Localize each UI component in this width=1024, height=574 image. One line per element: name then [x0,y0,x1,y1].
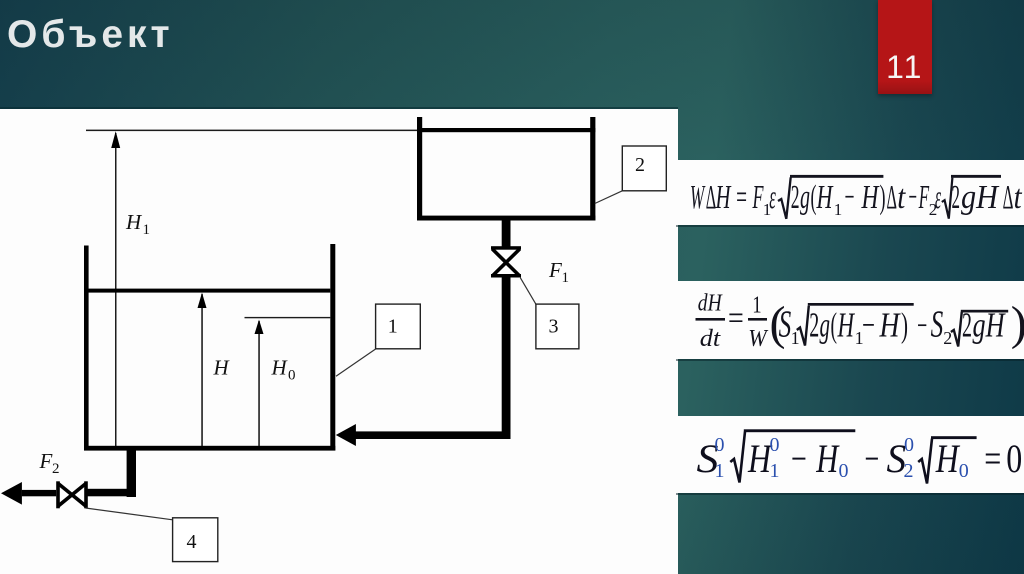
svg-text:=: = [736,179,747,216]
svg-text:H: H [837,306,855,345]
bottom horizontal pipe [87,489,136,497]
tank T1 water level line [89,289,331,293]
H arrowhead [198,293,207,308]
pipe tank2 to valve1 [502,220,511,247]
tank T2 right wall [590,117,595,221]
svg-text:H: H [815,436,839,481]
svg-text:S: S [779,304,792,346]
H0 arrowhead [255,320,264,334]
svg-text:H: H [715,179,732,216]
svg-text:H: H [125,210,143,234]
FORMULA 2 [696,291,1024,353]
svg-text:1: 1 [752,293,761,319]
svg-text:g: g [820,306,831,345]
valve V2 right bar [84,481,88,508]
svg-text:0: 0 [839,460,849,482]
svg-text:2: 2 [791,179,800,216]
svg-text:t: t [897,179,906,216]
H1 arrowhead [111,131,120,148]
svg-text:F: F [39,449,53,473]
leader line to box 1 [336,349,376,376]
white diagram panel [0,109,678,574]
FORMULA 1 [690,175,1023,219]
svg-text:S: S [931,304,944,346]
formula strip 1 [676,160,1024,225]
svg-text:dH: dH [698,291,723,317]
svg-text:=: = [984,436,1001,481]
pipe valve1 down [502,278,511,440]
H0 arrow shaft [258,321,260,446]
svg-text:−: − [865,436,880,481]
svg-text:−: − [917,308,927,345]
svg-text:1: 1 [562,270,570,286]
svg-text:gH: gH [961,179,1000,216]
svg-text:3: 3 [549,315,559,337]
outflow arrow shaft [22,490,56,496]
svg-text:dt: dt [700,326,722,352]
svg-text:1: 1 [834,200,843,219]
svg-text:1: 1 [388,315,398,337]
formula strip 2 [676,281,1024,359]
outflow arrowhead [1,482,22,505]
leader line to box 2 [595,191,623,204]
svg-text:2: 2 [904,460,914,482]
svg-text:2: 2 [809,306,819,345]
tank T2 left wall [417,117,422,221]
svg-text:H: H [861,179,880,216]
outlet pipe from T1 bottom [127,450,136,497]
svg-text:2: 2 [952,179,961,216]
svg-text:1: 1 [770,460,780,482]
svg-text:1: 1 [715,460,725,482]
valve V1 bottom bar [491,274,521,278]
callout box 3 [536,304,579,349]
svg-text:W: W [690,179,706,216]
svg-text:H: H [271,356,289,380]
svg-text:H: H [816,179,834,216]
svg-text:(: ( [831,306,838,345]
svg-text:W: W [748,326,768,352]
svg-text:H: H [213,356,231,380]
inflow arrowhead [336,424,356,446]
svg-text:=: = [728,300,744,337]
tank T1 bottom [84,446,335,451]
valve V2 left bar [56,481,60,508]
svg-text:ε: ε [769,179,776,216]
svg-text:): ) [1011,297,1024,350]
svg-text:2: 2 [962,306,972,345]
valve V1 top bar [491,246,521,250]
svg-text:2: 2 [635,154,645,176]
valve V2 cross strokes [58,483,86,506]
tank T1 right wall [330,244,335,451]
svg-text:0: 0 [770,434,780,456]
svg-text:gH: gH [973,306,1006,345]
svg-text:t: t [1014,179,1023,216]
svg-text:4: 4 [187,531,197,553]
svg-text:−: − [845,179,855,216]
leader line to box 3 [520,278,536,305]
FORMULA 3 [697,429,1024,483]
callout box 1 [376,304,421,349]
slide number plate [878,0,932,94]
svg-text:1: 1 [143,222,151,238]
svg-text:0: 0 [959,460,969,482]
H1 arrow shaft [115,133,117,446]
H arrow shaft [201,294,203,446]
leader line to box 4 [86,508,173,520]
svg-text:H: H [879,306,901,345]
svg-text:Δ: Δ [887,179,898,216]
svg-text:0: 0 [288,368,296,384]
svg-text:Δ: Δ [1003,179,1014,216]
callout box 4 [173,518,218,562]
svg-text:0: 0 [715,434,725,456]
formula strip 3 [676,416,1024,493]
tank T2 bottom [417,216,595,221]
tank T1 left wall [84,246,89,451]
svg-text:): ) [901,306,908,345]
svg-text:−: − [909,179,918,216]
svg-text:F: F [548,258,562,282]
valve V1 cross strokes [492,249,519,276]
H1 level thin line [86,130,417,132]
svg-text:H: H [935,436,960,481]
svg-text:0: 0 [1006,436,1022,481]
svg-text:−: − [791,436,807,481]
svg-text:g: g [800,179,810,216]
svg-text:−: − [862,306,875,345]
slide title [7,13,174,57]
svg-text:0: 0 [904,434,914,456]
svg-text:ε: ε [935,179,941,216]
horizontal inflow pipe [355,431,511,439]
callout box 2 [622,146,666,191]
svg-text:): ) [880,179,886,216]
tank T2 water level line [417,128,595,132]
H0 level thin line [245,317,331,318]
svg-text:2: 2 [52,461,60,477]
svg-text:1: 1 [791,328,800,348]
